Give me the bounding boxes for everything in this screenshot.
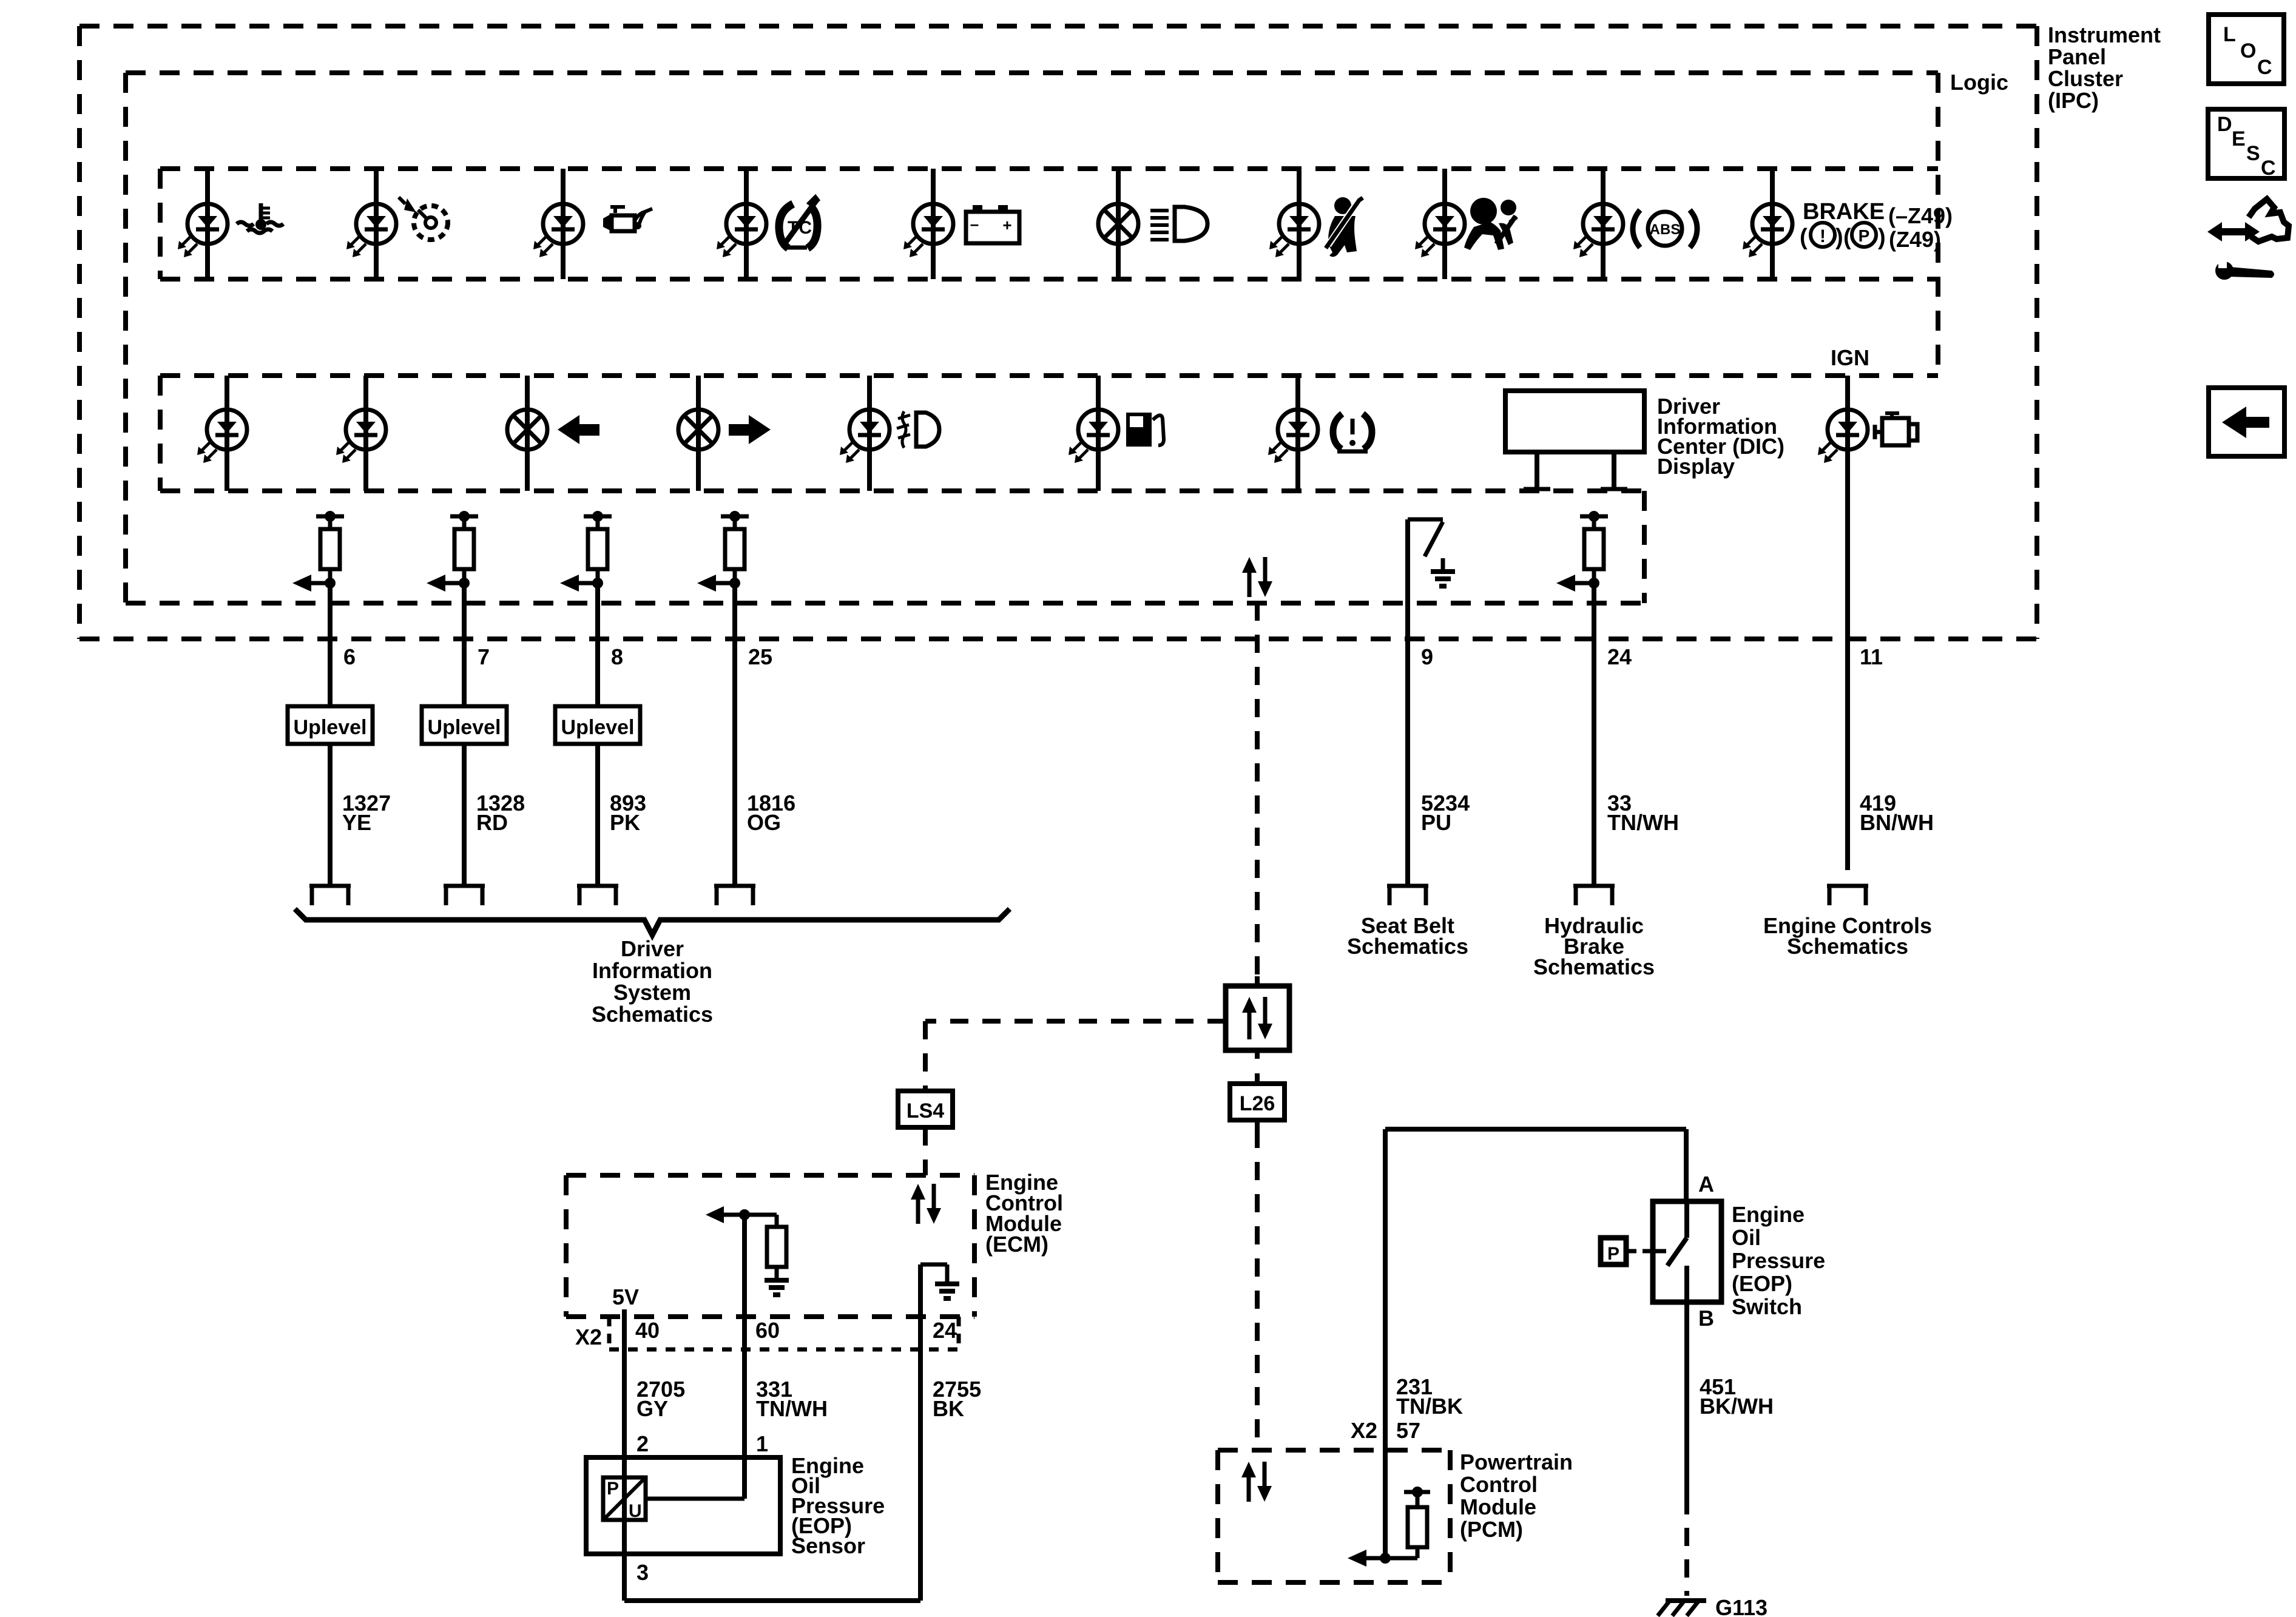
wire 331 from ECM node to sensor pin 1 <box>742 1215 747 1499</box>
ABS icon <box>1633 210 1697 248</box>
LOC navigation box <box>2209 15 2284 84</box>
svg-text:IGN: IGN <box>1831 345 1869 370</box>
crossed bulb lamp L14 right turn indicator <box>678 410 718 450</box>
svg-text:(ECM): (ECM) <box>985 1232 1048 1257</box>
wire label 1328 RD <box>476 791 525 835</box>
svg-text:(EOP): (EOP) <box>1732 1271 1792 1296</box>
wire from sensor pin 3 to ECM ground return <box>624 1554 920 1601</box>
wire 893 lower <box>595 744 600 886</box>
wire lamp L11 <box>225 376 229 491</box>
back arrow box <box>2209 388 2284 456</box>
LED lamp L15 fog lamp indicator <box>840 410 890 463</box>
svg-text:5V: 5V <box>612 1284 639 1309</box>
crossed bulb lamp L13 left turn indicator <box>507 410 547 450</box>
svg-text:C: C <box>2261 157 2276 180</box>
svg-text:Module: Module <box>1460 1494 1536 1519</box>
wire lamp L16 <box>1096 376 1101 491</box>
pin 25 label <box>748 644 772 669</box>
chassis ground G113 <box>1658 1601 1706 1616</box>
ECM pin 24 label <box>933 1318 957 1343</box>
ECM label <box>985 1170 1063 1257</box>
svg-text:B: B <box>1698 1306 1714 1331</box>
svg-text:LS4: LS4 <box>907 1099 944 1122</box>
Driver Information System Schematics label <box>592 936 713 1027</box>
svg-text:U: U <box>629 1501 642 1521</box>
wire label 331 TN/WH <box>756 1377 828 1421</box>
EOP sensor label <box>791 1453 885 1558</box>
wire lamp L10 <box>1770 169 1775 279</box>
svg-text:L26: L26 <box>1240 1092 1275 1115</box>
Engine Controls Schematics label <box>1763 913 1932 959</box>
svg-text:PK: PK <box>610 810 640 835</box>
svg-text:BK: BK <box>933 1396 964 1421</box>
svg-text:Powertrain: Powertrain <box>1460 1450 1573 1474</box>
svg-text:E: E <box>2232 127 2246 150</box>
svg-text:Cluster: Cluster <box>2048 66 2123 91</box>
svg-text:1: 1 <box>756 1431 768 1456</box>
wire lamp L1 <box>205 169 210 279</box>
speedometer gauge icon <box>399 197 448 240</box>
svg-text:P: P <box>1859 226 1870 245</box>
wire IGN to pin 11 <box>1845 376 1850 870</box>
indicator row 2 dashed box <box>160 376 1938 491</box>
svg-text:O: O <box>2240 39 2256 62</box>
svg-text:Schematics: Schematics <box>1347 934 1468 959</box>
wire 2705 from 5V to sensor pin 2 <box>622 1309 627 1554</box>
dashed wire LS4 to ECM <box>923 1127 928 1175</box>
bidirectional arrows inside ECM <box>911 1184 941 1224</box>
svg-text:8: 8 <box>611 644 623 669</box>
pin 7 label <box>478 644 490 669</box>
IPC label <box>2048 22 2161 113</box>
terminal on wire 893 <box>577 886 618 905</box>
LED lamp L3 engine oil indicator <box>533 204 583 257</box>
pressure transducer symbol P/U <box>603 1477 646 1521</box>
svg-text:): ) <box>1878 224 1886 250</box>
svg-text:Engine: Engine <box>1732 1202 1805 1227</box>
LED lamp L2 speed warning indicator <box>346 204 396 257</box>
Uplevel box on wire 893 <box>555 706 640 744</box>
EOP switch label <box>1732 1202 1825 1319</box>
wire pin 7 <box>462 583 467 706</box>
wire lamp L8 <box>1442 169 1447 279</box>
svg-text:BK/WH: BK/WH <box>1700 1394 1774 1419</box>
terminal on wire 1328 <box>444 886 485 905</box>
brake warning symbols <box>1800 223 1941 252</box>
seat belt switch to ground <box>1408 519 1455 886</box>
svg-text:(: ( <box>1843 224 1851 250</box>
svg-text:P: P <box>607 1479 619 1499</box>
svg-text:Driver: Driver <box>621 936 684 961</box>
svg-text:6: 6 <box>343 644 356 669</box>
LED lamp L16 fuel level indicator <box>1069 410 1118 463</box>
wire label 2755 BK <box>933 1377 981 1421</box>
svg-text:Uplevel: Uplevel <box>428 716 501 739</box>
wire label 1816 OG <box>747 791 795 835</box>
wire lamp L14 <box>696 376 701 491</box>
wire lamp L12 <box>363 376 368 491</box>
indicator row 1 dashed box <box>160 169 1938 279</box>
ECM ground for circuit 2755 <box>920 1264 959 1298</box>
svg-text:Control: Control <box>1460 1472 1538 1497</box>
pin 11 label <box>1860 644 1883 669</box>
left turn arrow icon <box>558 415 599 444</box>
svg-text:(IPC): (IPC) <box>2048 88 2099 113</box>
svg-text:40: 40 <box>635 1318 660 1343</box>
terminal on wire 33 <box>1573 886 1615 905</box>
svg-text:S: S <box>2246 142 2260 165</box>
svg-text:TN/WH: TN/WH <box>756 1396 828 1421</box>
terminal on wire 5234 <box>1387 886 1428 905</box>
wire lamp L2 <box>374 169 379 279</box>
dashed branch to LS4 <box>925 1021 1226 1091</box>
serial data dashed wire from IPC <box>1255 603 1260 976</box>
wire 2755 from ECM ground <box>918 1264 923 1601</box>
sensor internal wiring <box>646 1457 745 1499</box>
svg-text:X2: X2 <box>1351 1418 1377 1443</box>
X2 label at PCM <box>1351 1418 1377 1443</box>
svg-text:Uplevel: Uplevel <box>561 716 635 739</box>
svg-text:Pressure: Pressure <box>1732 1248 1825 1273</box>
PCM label <box>1460 1450 1573 1542</box>
svg-text:A: A <box>1698 1172 1714 1197</box>
IGN net label <box>1831 345 1869 370</box>
Seat Belt Schematics label <box>1347 913 1468 959</box>
Driver Information Center display box <box>1505 391 1644 491</box>
svg-text:P: P <box>1607 1244 1619 1264</box>
pull-up resistor chain for pin 8 <box>560 511 612 592</box>
LED lamp L4 traction control off indicator <box>717 204 766 257</box>
sensor pin 1 label <box>756 1431 768 1456</box>
hand with wrench icon <box>2207 199 2289 280</box>
svg-text:PU: PU <box>1421 810 1451 835</box>
EOP switch blade <box>1653 1201 1687 1302</box>
Uplevel box on wire 1328 <box>422 706 507 744</box>
pull-up resistor chain for pin 25 <box>697 511 749 592</box>
ECM pin 60 label <box>755 1318 780 1343</box>
wire pin 25 <box>732 583 737 886</box>
svg-text:TN/BK: TN/BK <box>1396 1394 1463 1419</box>
wire lamp L4 <box>744 169 749 279</box>
Engine Oil Pressure sensor box <box>586 1457 780 1554</box>
right turn arrow icon <box>729 415 771 444</box>
LED lamp L12 <box>336 410 386 463</box>
wire pin 6 <box>328 583 333 706</box>
terminal on wire 419 <box>1827 886 1868 905</box>
terminal on wire 1816 <box>714 886 755 905</box>
svg-text:Schematics: Schematics <box>592 1002 713 1027</box>
PCM pull-up resistor chain <box>1348 1487 1430 1567</box>
EOP switch pin B label <box>1698 1306 1714 1331</box>
pressure actuator P box <box>1601 1238 1652 1264</box>
svg-text:24: 24 <box>1607 644 1632 669</box>
wire pin 8 <box>595 583 600 706</box>
BRAKE label <box>1803 199 1953 228</box>
svg-text:Schematics: Schematics <box>1787 934 1908 959</box>
wire 451 BK/WH <box>1684 1302 1689 1596</box>
svg-text:System: System <box>613 980 691 1005</box>
svg-text:Schematics: Schematics <box>1533 954 1655 979</box>
Logic dashed box outline <box>126 73 1938 603</box>
svg-text:11: 11 <box>1860 644 1883 669</box>
wire label 419 BN/WH <box>1860 791 1934 835</box>
svg-text:!: ! <box>1820 226 1826 246</box>
svg-text:Oil: Oil <box>1732 1225 1761 1250</box>
svg-text:(–Z49): (–Z49) <box>1888 203 1953 228</box>
wire lamp L6 <box>1116 169 1121 279</box>
Uplevel box on wire 1327 <box>288 706 373 744</box>
svg-text:Panel: Panel <box>2048 44 2106 69</box>
svg-text:60: 60 <box>755 1318 780 1343</box>
X2 connector line on ECM <box>609 1317 959 1349</box>
traction control off icon <box>779 195 819 248</box>
svg-text:Sensor: Sensor <box>791 1533 865 1558</box>
svg-text:TN/WH: TN/WH <box>1607 810 1679 835</box>
svg-text:GY: GY <box>636 1396 668 1421</box>
seat belt icon <box>1326 197 1363 257</box>
svg-text:C: C <box>2257 56 2272 79</box>
svg-text:ABS: ABS <box>1650 221 1681 238</box>
dashed wire L26 to PCM <box>1255 1120 1260 1448</box>
wire label 5234 PU <box>1421 791 1470 835</box>
svg-text:G113: G113 <box>1715 1595 1768 1617</box>
pin 8 label <box>611 644 623 669</box>
svg-text:RD: RD <box>476 810 508 835</box>
pull-up resistor chain for pin 7 <box>427 511 478 592</box>
TPMS icon <box>1333 414 1372 451</box>
ECM pull-up resistor <box>767 1227 786 1267</box>
LED lamp L11 <box>197 410 247 463</box>
svg-text:(: ( <box>1800 224 1808 250</box>
wire lamp L15 <box>867 376 872 491</box>
fog lamp icon <box>897 411 939 448</box>
svg-text:BRAKE: BRAKE <box>1803 199 1885 224</box>
bidirectional arrows inside PCM <box>1241 1462 1272 1502</box>
wire pin 24 hydraulic <box>1592 583 1596 886</box>
pin 24 label <box>1607 644 1632 669</box>
LED lamp L17 tire pressure indicator <box>1268 410 1318 463</box>
pull-up resistor chain hydraulic brake <box>1556 511 1608 592</box>
wire label 2705 GY <box>636 1377 685 1421</box>
svg-text:3: 3 <box>636 1560 649 1585</box>
wire stub above L26 <box>1255 1073 1260 1084</box>
wire lamp L7 <box>1297 169 1302 279</box>
wire 231 TN/BK <box>1383 1129 1388 1558</box>
coolant temperature icon <box>237 203 283 233</box>
wire label 33 TN/WH <box>1607 791 1679 835</box>
sensor pin 2 label <box>636 1431 649 1456</box>
pin 6 label <box>343 644 356 669</box>
svg-text:9: 9 <box>1421 644 1433 669</box>
wire label 231 TN/BK <box>1396 1374 1463 1419</box>
wire lamp L13 <box>525 376 530 491</box>
svg-text:–: – <box>970 215 979 233</box>
svg-text:(Z49): (Z49) <box>1889 227 1941 252</box>
sensor pin 3 label <box>636 1560 649 1585</box>
ECM pin 40 label <box>635 1318 660 1343</box>
fuel pump icon <box>1126 413 1164 447</box>
svg-text:Instrument: Instrument <box>2048 22 2161 47</box>
L26 label box <box>1230 1084 1285 1120</box>
LS4 label box <box>898 1091 953 1127</box>
Hydraulic Brake Schematics label <box>1533 913 1655 979</box>
LED lamp L5 battery charge indicator <box>903 204 953 257</box>
svg-text:7: 7 <box>478 644 490 669</box>
terminal on wire 1327 <box>309 886 351 905</box>
Engine Control Module dashed box <box>566 1175 974 1317</box>
svg-text:25: 25 <box>748 644 772 669</box>
DIC label <box>1657 394 1784 479</box>
svg-text:Logic: Logic <box>1950 70 2008 95</box>
wire IPC pin 24 to EOP switch pin A <box>1385 1129 1686 1201</box>
Logic label <box>1950 70 2008 95</box>
wire lamp L5 <box>931 169 936 279</box>
wire lamp L17 <box>1295 376 1300 491</box>
svg-text:(PCM): (PCM) <box>1460 1517 1523 1542</box>
svg-text:Uplevel: Uplevel <box>294 716 367 739</box>
high beam icon <box>1150 207 1207 241</box>
crossed bulb lamp L6 high beam indicator <box>1098 204 1138 244</box>
svg-text:YE: YE <box>342 810 371 835</box>
Instrument Panel Cluster (IPC) dashed box <box>79 26 2037 639</box>
LED lamp L7 seat belt reminder indicator <box>1269 204 1319 257</box>
DESC navigation box <box>2208 109 2284 180</box>
svg-text:24: 24 <box>933 1318 957 1343</box>
wire lamp L3 <box>561 169 566 279</box>
G113 label <box>1715 1595 1768 1617</box>
wire label 451 BK/WH <box>1700 1374 1774 1419</box>
Engine Oil Pressure switch box <box>1653 1201 1721 1302</box>
svg-text:Display: Display <box>1657 454 1735 479</box>
svg-text:X2: X2 <box>575 1325 602 1349</box>
svg-text:BN/WH: BN/WH <box>1860 810 1934 835</box>
svg-text:2: 2 <box>636 1431 649 1456</box>
ECM internal node on circuit 331 <box>706 1206 777 1227</box>
wire label 1327 YE <box>342 791 391 835</box>
pull-up resistor chain for pin 6 <box>292 511 344 592</box>
wire label 893 PK <box>610 791 646 835</box>
svg-text:57: 57 <box>1396 1418 1420 1443</box>
pin 9 label <box>1421 644 1433 669</box>
oil can icon <box>603 207 652 232</box>
wire 1328 lower <box>462 744 467 886</box>
airbag icon <box>1464 198 1517 250</box>
LED lamp L10 BRAKE indicator <box>1743 204 1792 257</box>
serial data connector box <box>1226 976 1289 1059</box>
LED lamp L18 check engine indicator <box>1818 410 1868 463</box>
svg-text:): ) <box>1835 224 1843 250</box>
5V supply label <box>612 1284 639 1309</box>
X2 connector label <box>575 1325 602 1349</box>
svg-text:+: + <box>1002 216 1011 234</box>
wire 1327 lower <box>328 744 333 886</box>
ECM resistor ground <box>765 1267 789 1295</box>
EOP switch pin A label <box>1698 1172 1714 1197</box>
LED lamp L1 coolant temperature indicator <box>178 204 228 257</box>
PCM pin 57 label <box>1396 1418 1420 1443</box>
svg-text:OG: OG <box>747 810 781 835</box>
svg-text:D: D <box>2217 113 2232 136</box>
LED lamp L8 airbag indicator <box>1415 204 1465 257</box>
bidirectional arrows on serial data line <box>1242 557 1272 597</box>
svg-text:Information: Information <box>592 958 712 983</box>
LED lamp L9 ABS indicator <box>1573 204 1623 257</box>
svg-text:L: L <box>2223 23 2236 46</box>
check engine icon <box>1874 413 1917 445</box>
Powertrain Control Module dashed box <box>1218 1450 1450 1582</box>
wire lamp L9 <box>1601 169 1606 279</box>
brace for Driver Information System Schematics <box>295 909 1010 935</box>
svg-text:Switch: Switch <box>1732 1294 1802 1319</box>
battery icon <box>966 205 1019 243</box>
